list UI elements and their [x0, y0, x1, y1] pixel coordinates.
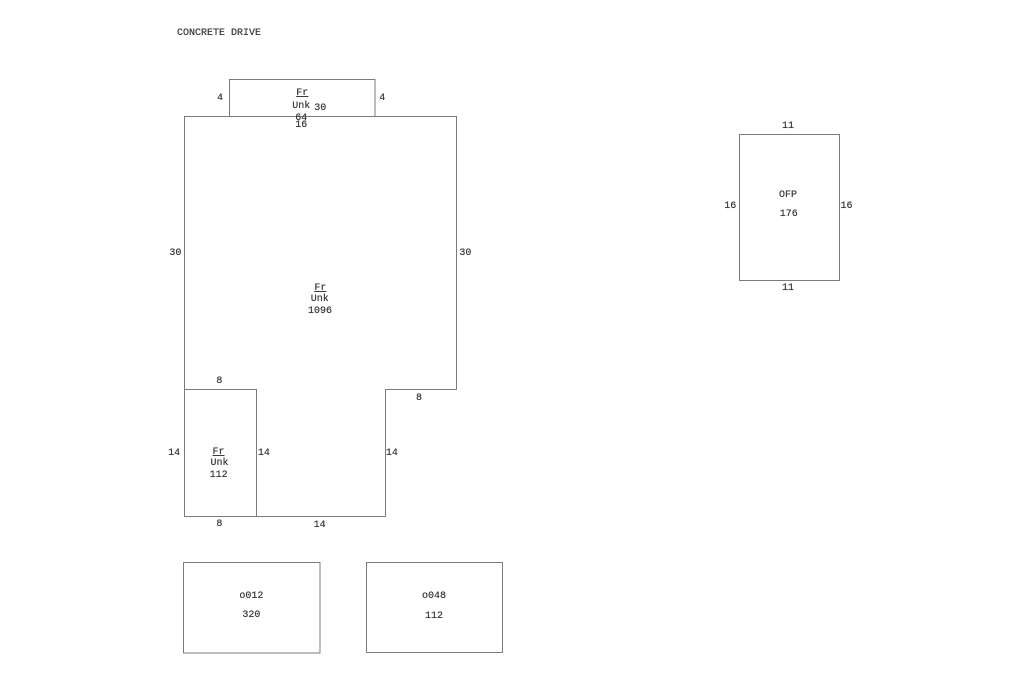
main dwelling top wall — [184, 116, 457, 118]
addition top wall (Fr Unk 112) — [184, 389, 257, 391]
O012 rectangle — [184, 563, 321, 654]
O048 area 112 — [425, 612, 443, 622]
dimension 14 main bottom — [314, 521, 326, 531]
main label Fr — [314, 284, 326, 294]
porch dimension 4 left — [217, 94, 223, 104]
main dimension 30 right — [459, 249, 471, 259]
OFP dimension 11 top — [782, 122, 794, 132]
addition label Fr — [212, 448, 224, 458]
O048 rectangle — [367, 563, 503, 653]
main dwelling left wall — [184, 116, 186, 517]
dimension 8 addition bottom — [216, 520, 222, 530]
O048 label — [422, 592, 446, 602]
OFP label — [779, 191, 797, 201]
dimension 8 addition top — [216, 377, 222, 387]
porch label Unk — [292, 102, 310, 112]
dimension 14 addition right — [258, 449, 270, 459]
main dwelling right wall — [456, 116, 458, 389]
main area 1096 — [308, 307, 332, 317]
OFP dimension 11 bottom — [782, 284, 794, 294]
main dimension 30 left — [169, 249, 181, 259]
O012 label — [239, 592, 263, 602]
addition area 112 — [210, 471, 228, 481]
main dwelling bottom-right wall — [385, 389, 457, 391]
addition label Unk — [210, 459, 228, 469]
main label Unk — [311, 295, 329, 305]
label CONCRETE DRIVE — [177, 29, 261, 39]
OFP rectangle — [740, 135, 840, 281]
addition right wall (Fr Unk 112) — [256, 389, 258, 517]
OFP area 176 — [780, 210, 798, 220]
dimension 8 main bottom-right — [416, 394, 422, 404]
porch outline (Fr Unk 64) — [230, 80, 376, 117]
OFP dimension 16 right — [840, 202, 852, 212]
porch label Fr — [296, 89, 308, 99]
OFP dimension 16 left — [724, 202, 736, 212]
porch dimension 4 right — [379, 94, 385, 104]
main dwelling bottom wall — [184, 516, 386, 518]
main top dimension 30 — [314, 104, 326, 114]
dimension 14 addition left — [168, 449, 180, 459]
main dwelling lower-right wall — [385, 389, 387, 517]
porch area 64 — [295, 114, 307, 124]
dimension 14 main lower-right — [386, 449, 398, 459]
porch dimension 16 — [295, 121, 307, 131]
O012 area 320 — [242, 611, 260, 621]
